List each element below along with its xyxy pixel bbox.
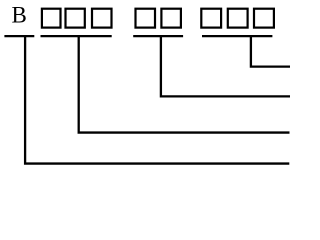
diagram: code-structure legend: [0, 0, 301, 175]
underline under group 2: [133, 35, 183, 37]
svg-text:B: B: [12, 2, 27, 27]
box 5: [161, 9, 181, 28]
box 1: [42, 9, 61, 28]
leader line from group 2: [161, 37, 290, 97]
box 6: [201, 9, 221, 28]
underline under group 1: [41, 35, 112, 37]
underline under group 3: [202, 35, 272, 37]
box 4: [136, 9, 156, 28]
underline under B: [4, 35, 34, 37]
box 3: [92, 9, 112, 28]
box 8: [254, 9, 274, 28]
leader line from group 1: [79, 37, 290, 133]
leader line from B underline to bottom row: [25, 37, 289, 164]
leader line from group 3: [251, 37, 290, 67]
box 2: [66, 9, 85, 28]
box 7: [228, 9, 248, 28]
